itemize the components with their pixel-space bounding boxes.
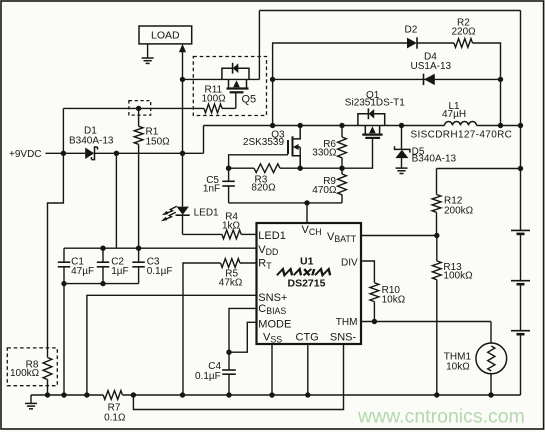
node R6 top: [339, 123, 344, 128]
svg-text:Si2351DS-T1: Si2351DS-T1: [345, 98, 405, 109]
LED1 diode: [177, 207, 189, 215]
transistor Q3: [293, 126, 300, 139]
wire R5 to rail: [183, 263, 221, 395]
node C2 bottom: [100, 281, 105, 286]
diode D2: [407, 38, 417, 49]
node C4 bottom: [226, 392, 231, 397]
wire between cells 2-3: [520, 284, 522, 331]
svg-text:0.1Ω: 0.1Ω: [104, 412, 126, 423]
wire THM: [361, 321, 491, 323]
node D4 row right: [498, 77, 503, 82]
R11 gate riser: [235, 92, 237, 108]
wire MODE: [229, 322, 257, 352]
node C1 col bottom: [61, 392, 66, 397]
wire D2 to R2: [417, 42, 454, 44]
svg-text:LED1: LED1: [194, 207, 219, 218]
node C4 top: [226, 350, 231, 355]
svg-text:B340A-13: B340A-13: [69, 136, 114, 147]
svg-text:SISCDRH127-470RC: SISCDRH127-470RC: [411, 130, 513, 141]
resistor R7: [103, 391, 122, 400]
node R6 bottom: [339, 166, 344, 171]
svg-text:47µF: 47µF: [71, 266, 94, 277]
svg-text:THM: THM: [336, 317, 358, 328]
node R1 tap: [136, 106, 141, 111]
resistor R2: [454, 39, 473, 48]
arrow into LOAD: [182, 51, 184, 79]
ground under D5: [396, 167, 408, 169]
wire riser D1out to VDD row: [115, 153, 117, 248]
node C5 top: [226, 166, 231, 171]
svg-text:LED1: LED1: [258, 230, 286, 242]
svg-text:www.cntronics.com: www.cntronics.com: [357, 406, 525, 428]
svg-text:+9VDC: +9VDC: [9, 149, 42, 160]
node R8 bottom: [45, 392, 50, 397]
svg-text:0.1µF: 0.1µF: [195, 371, 221, 382]
svg-text:1kΩ: 1kΩ: [222, 220, 241, 231]
wire between cells 1-2: [520, 234, 522, 281]
svg-text:10kΩ: 10kΩ: [382, 294, 406, 305]
op-amp U1 DS2715 box: [257, 223, 362, 344]
diode D1: [85, 148, 94, 159]
LOAD block: [139, 26, 192, 44]
svg-text:47µH: 47µH: [442, 109, 466, 120]
svg-text:47kΩ: 47kΩ: [219, 277, 243, 288]
node rail-LED junction: [180, 151, 185, 156]
wire LED-col to Q5: [183, 78, 260, 80]
wire Q3 gate: [229, 155, 288, 168]
wire VBATT: [361, 235, 437, 237]
resistor R13: [436, 236, 438, 261]
resistor R3: [254, 164, 280, 173]
LED1 arrows: [166, 206, 177, 213]
svg-text:470Ω: 470Ω: [312, 185, 337, 196]
svg-text:LOAD: LOAD: [151, 30, 180, 42]
svg-text:B340A-13: B340A-13: [412, 154, 457, 165]
node Q3 source: [298, 166, 303, 171]
node D4 row left: [270, 77, 275, 82]
node CTG bottom: [305, 392, 310, 397]
svg-text:D2: D2: [405, 25, 418, 36]
U1 MAXIM logo: [277, 269, 332, 275]
node D5 top: [399, 123, 404, 128]
node R5 col bottom: [180, 392, 185, 397]
svg-text:100Ω: 100Ω: [202, 94, 227, 105]
capacitor C4: [228, 352, 230, 370]
wire riser to top row: [62, 108, 64, 153]
svg-text:SNS-: SNS-: [330, 332, 357, 344]
transistor Q1: [358, 114, 368, 126]
wire THM riser: [490, 322, 492, 344]
node VBATT junction: [434, 233, 439, 238]
svg-text:1µF: 1µF: [111, 266, 128, 277]
battery cell 2: [511, 280, 530, 282]
wire top rail: [259, 10, 520, 12]
node x272 joins row: [270, 123, 275, 128]
wire C1 col to ground rail: [63, 284, 65, 395]
node THM1 bottom: [488, 392, 493, 397]
svg-text:10kΩ: 10kΩ: [446, 361, 470, 372]
node VCH: [304, 200, 309, 205]
ground under LOAD: [147, 44, 149, 58]
svg-text:1nF: 1nF: [203, 183, 220, 194]
inductor L1: [445, 122, 477, 126]
dashed box Q5/R11: [193, 57, 266, 116]
wire VCH riser: [306, 203, 308, 223]
resistor R5: [240, 262, 257, 264]
resistor R8: [43, 358, 52, 380]
wire SNS- pin: [133, 344, 343, 410]
wire C5-R3: [229, 167, 254, 169]
diode D4: [423, 74, 425, 85]
node SNS+ bottom: [84, 392, 89, 397]
wire cap bottoms: [64, 283, 139, 285]
wire CBIAS: [229, 308, 257, 352]
svg-text:220Ω: 220Ω: [452, 27, 477, 38]
node battery col R12: [518, 166, 523, 171]
wire bottom rail left: [31, 394, 103, 396]
node R13 bottom: [434, 392, 439, 397]
svg-text:2SK3539: 2SK3539: [243, 137, 285, 148]
node D1 out: [114, 151, 119, 156]
svg-text:US1A-13: US1A-13: [411, 61, 452, 72]
resistor R6: [341, 126, 343, 138]
wire bottom rail right: [123, 394, 521, 396]
svg-text:U1: U1: [300, 256, 314, 268]
svg-text:0.1µF: 0.1µF: [147, 266, 173, 277]
wire rail down to LED: [182, 79, 184, 206]
node VSS bottom: [269, 392, 274, 397]
node C2 top: [100, 246, 105, 251]
node C1 bottom: [61, 281, 66, 286]
wire D4 row: [273, 78, 501, 80]
resistor R11: [204, 104, 222, 113]
wire R3 out: [280, 167, 300, 169]
wire CTG pin: [307, 344, 309, 395]
wire top +9V row: [63, 107, 204, 109]
wire R2 out: [473, 43, 501, 126]
battery cell 1: [511, 229, 530, 231]
svg-text:100kΩ: 100kΩ: [10, 368, 40, 379]
wire rail to D1: [63, 152, 85, 154]
svg-text:200kΩ: 200kΩ: [444, 206, 474, 217]
diode D5: [401, 126, 403, 150]
wire D2 row left: [273, 43, 407, 126]
wire +9VDC lead: [46, 152, 64, 154]
dashed box R8: [7, 348, 57, 386]
svg-text:100kΩ: 100kΩ: [443, 271, 473, 282]
wire C5 bottom to VCH: [229, 202, 342, 204]
capacitor C3: [138, 248, 140, 262]
resistor R9: [341, 168, 343, 174]
svg-text:MODE: MODE: [258, 318, 291, 330]
svg-text:820Ω: 820Ω: [251, 183, 276, 194]
capacitor C5: [228, 168, 230, 181]
capacitor C2: [102, 248, 104, 262]
svg-text:CTG: CTG: [296, 332, 319, 344]
svg-text:150Ω: 150Ω: [146, 137, 171, 148]
wire LED to R4: [183, 233, 222, 235]
wire right battery column upper: [520, 11, 522, 231]
node THM junction: [372, 319, 377, 324]
node C3 top: [136, 246, 141, 251]
svg-text:Q5: Q5: [242, 94, 257, 106]
wire VDD row: [64, 247, 257, 249]
capacitor C1: [63, 248, 65, 262]
wire DIV: [361, 261, 374, 283]
wire switch row: [204, 125, 445, 127]
resistor R10: [370, 283, 379, 302]
wire battery bottom: [520, 334, 522, 395]
node Q5 source junction: [180, 77, 185, 82]
wire Q3 src to R6: [300, 167, 342, 169]
wire D1 to gate corner: [94, 152, 203, 154]
wire R4 to LED1 pin: [241, 233, 256, 235]
resistor R4: [222, 230, 241, 239]
resistor R1: [138, 108, 140, 126]
wire R12 top row: [437, 168, 521, 170]
dashed measure box at R1 tap: [129, 101, 151, 116]
wire Q1 gate lead: [342, 138, 373, 168]
svg-text:DS2715: DS2715: [288, 278, 326, 290]
node R7 right: [131, 392, 136, 397]
node Q3 drain: [298, 123, 303, 128]
wire Q5 drain riser: [258, 11, 260, 80]
node L1 out / battery col: [518, 123, 523, 128]
wire rail to R8: [48, 153, 64, 357]
resistor R12: [436, 169, 438, 195]
wire SNS+: [87, 295, 257, 395]
wire VSS pin: [271, 344, 273, 395]
node L1 out / R2 col: [498, 123, 503, 128]
battery cell 3: [511, 330, 530, 332]
ground at rail left: [30, 395, 32, 403]
svg-text:DIV: DIV: [341, 258, 358, 269]
svg-text:330Ω: 330Ω: [312, 147, 337, 158]
wire rail corner riser: [203, 126, 205, 154]
thermistor THM1: [476, 343, 507, 374]
transistor Q5: [222, 68, 233, 79]
node +9VDC junction: [61, 151, 66, 156]
